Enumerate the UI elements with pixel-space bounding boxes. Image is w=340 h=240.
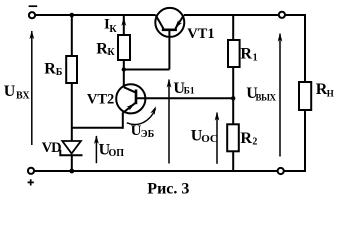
svg-text:К: К [109,24,117,35]
terminal input minus [29,12,35,18]
wire top rail left segment (input minus to VT1) [35,14,156,16]
wire RK bottom to node [123,60,125,70]
transistor VT1 circle [155,8,184,37]
svg-text:U: U [4,83,16,100]
node dot VT2 base at divider junction [231,96,235,100]
arrow UVYX [279,34,281,157]
arrow UVX [31,31,33,145]
svg-text:ВЫХ: ВЫХ [256,93,277,103]
svg-text:R: R [240,46,252,63]
arrow UEB curved [127,109,156,125]
svg-text:2: 2 [252,137,257,148]
wire zener to bottom rail [71,155,73,171]
wire right edge down to RH [304,14,306,171]
svg-text:R: R [96,40,108,57]
terminal output top [279,12,285,18]
arrow IK [121,17,126,26]
plus polarity mark [28,179,34,185]
transistor VT2 base bar [135,90,138,105]
svg-text:Б: Б [56,67,63,78]
wire VT1 base lead down [168,31,170,70]
wire RK branch from top rail (also IK arrow line) [123,15,125,35]
zener diode VD cathode bar with tick [60,150,82,156]
wire VT2 emitter horizontal to zener node [72,127,123,129]
svg-text:Б1: Б1 [184,87,195,97]
terminal input plus [28,168,34,174]
transistor VT2 collector slant [124,87,135,92]
minus polarity mark [29,5,38,7]
wire R1 to R2 [232,67,234,124]
resistor R1 body [228,40,240,67]
wire node to VT1 base column [124,69,170,71]
transistor VT2 emitter slant [123,103,136,113]
svg-text:R: R [240,130,252,147]
svg-text:ОП: ОП [109,148,125,159]
wire top rail right segment (VT1 to top-right corner) [184,14,305,16]
svg-text:ЭБ: ЭБ [141,129,155,140]
wire RB branch from top rail [71,15,73,56]
node dot RK/VT1 base/VT2 collector junction [122,67,126,71]
wire R1 branch from top rail [232,15,234,40]
svg-text:ВХ: ВХ [16,91,30,102]
svg-text:ОС: ОС [201,133,218,145]
transistor VT1 base bar [162,28,177,31]
transistor VT2 circle [116,84,145,113]
svg-text:R: R [44,60,56,77]
arrow UOS [216,113,218,164]
wire bottom rail [34,170,306,172]
svg-text:VT2: VT2 [87,91,114,107]
wire VT2 collector lead up [123,70,125,88]
terminal output bottom [278,168,284,174]
wire R2 to bottom rail [232,151,234,171]
transistor VT1 emitter arrow [173,20,182,30]
svg-text:VD: VD [42,140,61,156]
zener diode VD triangle [62,141,81,154]
arrow UB1 [168,80,170,164]
transistor VT2 emitter arrow [126,102,136,111]
transistor VT1 emitter slant [175,15,183,28]
node dot RB top rail junction [70,13,75,18]
svg-text:Рис. 3: Рис. 3 [147,180,189,197]
resistor RH body [299,82,311,110]
transistor VT1 collector slant [156,15,164,29]
wire VT2 emitter vertical [122,113,124,129]
resistor RB body [66,56,77,83]
wire VT2 base to divider [136,97,233,99]
svg-text:1: 1 [253,53,258,64]
svg-text:Н: Н [327,89,334,99]
resistor R2 body [227,124,239,151]
wire RB bottom to zener node [71,83,73,141]
resistor RK body [118,35,130,60]
arrow UOP [95,136,97,163]
svg-text:VT1: VT1 [187,26,214,42]
node dot zener bottom rail junction [69,169,74,174]
svg-text:К: К [107,47,115,58]
